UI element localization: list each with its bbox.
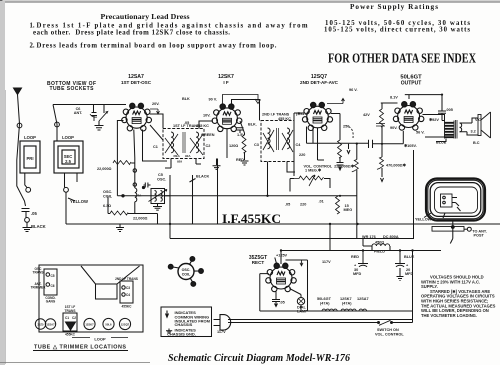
svg-text:C3: C3 [254,143,259,147]
svg-text:I F: I F [223,80,229,85]
svg-text:120Ω: 120Ω [229,144,238,148]
svg-text:12SK7: 12SK7 [85,323,94,327]
svg-text:REA: REA [174,154,181,158]
svg-text:929: 929 [177,160,182,164]
svg-text:90 V.: 90 V. [209,97,218,101]
svg-text:2ND I.F TRANS: 2ND I.F TRANS [115,277,138,281]
svg-text:(47A): (47A) [342,302,352,306]
svg-text:Power Supply Ratings: Power Supply Ratings [350,3,438,11]
svg-text:B.C: B.C [473,141,480,145]
svg-text:OSC.: OSC. [182,268,191,272]
svg-text:117V: 117V [217,330,226,334]
svg-text:92A: 92A [185,154,191,158]
svg-text:455 KC: 455 KC [196,124,209,128]
svg-text:470,000Ω✱: 470,000Ω✱ [386,163,407,168]
svg-text:455KC: 455KC [122,305,133,309]
svg-text:C5: C5 [158,173,163,177]
svg-text:.05: .05 [31,211,37,216]
svg-text:1​ST DET-OSC: 1​ST DET-OSC [121,80,152,85]
svg-text:SWITCH ON: SWITCH ON [377,328,399,332]
svg-text:455 KC: 455 KC [278,117,291,121]
svg-text:56 V.: 56 V. [416,131,425,135]
svg-text:+: + [406,264,409,268]
svg-text:LOOP: LOOP [62,135,74,140]
svg-text:.05: .05 [280,301,285,305]
svg-text:22,000Ω: 22,000Ω [97,167,112,171]
svg-text:C4: C4 [126,293,130,297]
svg-text:FOR OTHER DATA SEE INDEX: FOR OTHER DATA SEE INDEX [328,51,476,66]
svg-text:RECT: RECT [252,260,265,265]
svg-text:✱92V: ✱92V [429,117,439,122]
svg-text:96 V.: 96 V. [349,88,358,92]
svg-text:MEG: MEG [344,208,353,212]
svg-text:220: 220 [299,153,305,157]
svg-text:C1: C1 [153,145,158,149]
svg-text:2.5: 2.5 [65,159,71,164]
svg-text:THE VOLTMETER LOADING.: THE VOLTMETER LOADING. [421,313,477,318]
svg-text:PRI: PRI [27,156,34,161]
svg-text:RED: RED [351,255,359,259]
svg-text:BLUE: BLUE [404,255,415,259]
svg-text:TRIMMER: TRIMMER [31,286,47,290]
svg-text:12SK7: 12SK7 [340,297,352,301]
svg-text:YELLOW: YELLOW [415,218,432,222]
svg-text:220: 220 [300,203,306,207]
svg-text:42V: 42V [363,113,370,117]
svg-text:.05: .05 [285,203,290,207]
svg-text:C3: C3 [126,286,130,290]
svg-text:GANG: GANG [46,300,56,304]
svg-text:GREEN: GREEN [201,133,215,137]
svg-text:OSC.: OSC. [103,190,112,194]
svg-text:MFD: MFD [353,272,361,276]
svg-text:+125V: +125V [276,254,288,258]
svg-text:455KC: 455KC [65,333,76,337]
svg-text:2.: 2. [30,43,35,50]
svg-text:8.1V: 8.1V [390,96,398,100]
svg-text:WR 176: WR 176 [362,235,376,239]
svg-text:LAMP: LAMP [297,310,308,314]
svg-text:BLACK: BLACK [31,224,46,229]
svg-text:12SA7: 12SA7 [357,297,369,301]
svg-text:LOOP: LOOP [24,135,36,140]
svg-text:TUBE △ TRIMMER LOCATIONS: TUBE △ TRIMMER LOCATIONS [34,345,126,351]
svg-text:BLUE: BLUE [436,141,447,145]
svg-text:20V.: 20V. [152,102,159,106]
svg-text:BLK.: BLK. [248,123,257,127]
svg-text:105-125 volts, direct current,: 105-125 volts, direct current, 30 watts [324,27,470,34]
svg-text:OUTPUT: OUTPUT [401,81,422,87]
svg-text:TUBE SOCKETS: TUBE SOCKETS [50,86,95,92]
svg-text:TRANS: TRANS [65,309,76,313]
svg-text:.005: .005 [446,108,453,112]
svg-text:450Ω: 450Ω [375,241,384,245]
svg-text:.05: .05 [184,121,189,125]
svg-text:2ND I.F TRANS: 2ND I.F TRANS [262,113,290,117]
svg-text:Precautionary Lead Dress: Precautionary Lead Dress [101,12,190,21]
svg-text:C2: C2 [206,144,211,148]
svg-text:C6: C6 [50,284,54,288]
svg-text:12SA7: 12SA7 [46,323,55,327]
svg-text:FIELD: FIELD [374,250,385,254]
svg-text:90V.: 90V. [390,126,397,130]
svg-text:+: + [354,264,357,268]
svg-text:each other. Dress plate lead: each other. Dress plate lead from 12SK7 … [33,29,230,36]
svg-text:6.3Ω: 6.3Ω [103,204,111,208]
svg-text:BLK: BLK [182,97,190,101]
svg-text:DC 800A: DC 800A [383,235,399,239]
svg-text:35Z5: 35Z5 [37,323,44,327]
svg-text:12SQ7: 12SQ7 [121,323,130,327]
svg-text:MFD: MFD [405,272,413,276]
svg-text:POST: POST [474,233,485,237]
svg-text:C2: C2 [72,316,76,320]
svg-text:COIL: COIL [182,273,191,277]
svg-text:C5: C5 [50,274,54,278]
svg-text:✱105V.: ✱105V. [404,143,417,148]
svg-text:Schematic Circuit Diagram Mode: Schematic Circuit Diagram Model-WR-176 [168,353,350,364]
svg-text:BLACK: BLACK [196,174,210,178]
svg-text:Dress leads from terminal boar: Dress leads from terminal board on loop … [37,43,277,50]
svg-text:C4: C4 [296,143,302,147]
svg-text:ANT.: ANT. [74,111,82,115]
svg-text:2​ND DET-AF-AVC: 2​ND DET-AF-AVC [300,80,339,85]
svg-text:(47A): (47A) [320,302,330,306]
svg-text:3.2: 3.2 [471,130,476,134]
svg-text:C1: C1 [65,316,69,320]
svg-text:V.C: V.C [475,118,481,122]
svg-text:LOOP: LOOP [94,337,106,342]
svg-text:22,000Ω: 22,000Ω [133,217,148,221]
svg-text:250: 250 [343,125,349,129]
svg-text:10V.: 10V. [203,114,210,118]
svg-text:YELLOW: YELLOW [70,199,88,204]
svg-text:TRANS: TRANS [33,271,44,275]
svg-text:OSC.: OSC. [157,178,166,182]
svg-text:50L6: 50L6 [105,323,112,327]
svg-text:VOL. CONTROL: VOL. CONTROL [375,333,404,337]
svg-text:1 MEG.✱: 1 MEG.✱ [305,168,322,173]
svg-text:117V: 117V [322,260,331,264]
svg-text:COIL: COIL [103,195,113,199]
svg-text:220,000Ω✱: 220,000Ω✱ [334,164,355,169]
svg-text:.01: .01 [319,200,324,204]
svg-text:50L6GT: 50L6GT [317,297,332,301]
svg-text:CHASSIS: CHASSIS [175,322,193,327]
svg-text:CHASSIS GND.: CHASSIS GND. [167,332,196,337]
